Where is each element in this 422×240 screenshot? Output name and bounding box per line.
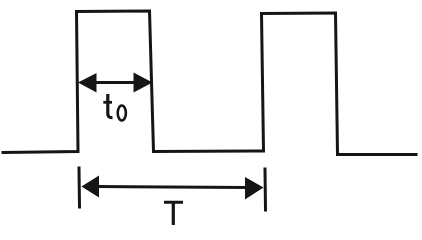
value label t0 : subscript 0 xyxy=(118,106,126,121)
node t0 left arrowhead xyxy=(78,73,97,93)
node T left extension tick xyxy=(78,168,82,207)
node T right arrowhead xyxy=(245,177,264,200)
node T right extension tick xyxy=(264,169,268,210)
wire pulse-train waveform xyxy=(3,11,416,155)
wire t0 dimension line xyxy=(95,81,135,84)
wire T dimension line xyxy=(98,187,246,188)
value label T xyxy=(164,201,183,204)
node T left arrowhead xyxy=(82,176,100,198)
node t0 right arrowhead xyxy=(134,73,153,93)
value label t0 : letter t xyxy=(108,94,113,118)
